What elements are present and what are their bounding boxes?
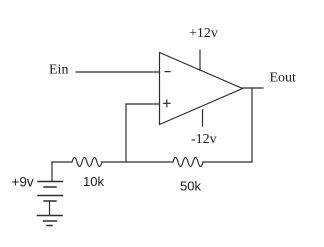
svg-text:-12v: -12v [191,132,217,147]
wire: battery to 10k [52,161,72,163]
wire: op-amp bottom to -12v supply [202,110,204,126]
label +12v supply [189,26,218,41]
svg-text:Eout: Eout [270,71,297,86]
svg-text:+12v: +12v [189,26,218,41]
svg-text:Ein: Ein [49,63,68,78]
resistor R1 10k [72,158,102,167]
label 10k resistor value [83,174,104,189]
resistor R2 50k [173,158,203,167]
wire: Ein to inverting input [76,71,160,73]
wire: +12v supply to op-amp top [199,50,201,70]
op-amp inverting input pin label (-) [165,71,170,73]
wire: battery - to ground [49,201,51,216]
label +9v battery value [12,175,34,190]
op-amp U1 [160,53,243,125]
wire: node A vertical (junction to bottom rail) [125,104,127,162]
node Ein label [49,63,68,78]
op-amp non-inverting input pin label (+) [164,100,171,107]
svg-text:+9v: +9v [12,175,34,190]
svg-text:50k: 50k [180,179,201,194]
wire: op-amp output to Eout [243,87,264,89]
node Eout label [270,71,297,86]
ground [38,216,63,226]
label 50k resistor value [180,179,201,194]
wire: rail corner down to battery + [51,162,53,181]
wire: 50k to feedback vertical [203,161,252,163]
label -12v supply [191,132,217,147]
svg-text:10k: 10k [83,174,104,189]
battery B1 +9v [38,182,63,202]
wire: output feedback vertical [251,88,253,162]
wire: non-inverting input stub [126,103,160,105]
wire: 10k to node A to 50k [102,161,173,163]
